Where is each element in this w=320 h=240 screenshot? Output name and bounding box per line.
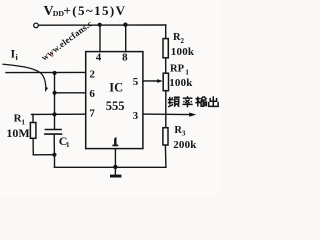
svg-text:555: 555	[106, 99, 125, 113]
svg-text:200k: 200k	[173, 139, 197, 151]
svg-text:+(5~15)V: +(5~15)V	[64, 3, 127, 18]
svg-text:10M: 10M	[6, 126, 29, 140]
svg-text:5: 5	[133, 76, 139, 88]
svg-text:3: 3	[133, 110, 139, 122]
svg-text:100k: 100k	[171, 46, 195, 58]
svg-text:1: 1	[185, 67, 189, 76]
svg-text:2: 2	[181, 37, 185, 45]
svg-text:4: 4	[96, 51, 102, 63]
svg-text:IC: IC	[109, 80, 123, 94]
svg-text:RP: RP	[170, 63, 185, 74]
svg-text:3: 3	[182, 130, 186, 138]
svg-text:2: 2	[89, 68, 95, 80]
svg-text:7: 7	[89, 108, 95, 120]
svg-text:8: 8	[122, 51, 128, 63]
svg-text:100k: 100k	[169, 77, 193, 89]
svg-text:1: 1	[66, 141, 70, 149]
svg-text:6: 6	[89, 88, 95, 100]
